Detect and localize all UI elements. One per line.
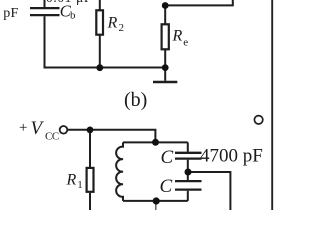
svg-text:1: 1: [77, 179, 83, 191]
svg-text:(b): (b): [124, 89, 147, 111]
svg-text:+: +: [19, 120, 27, 136]
svg-text:b: b: [70, 9, 76, 21]
svg-text:V: V: [31, 118, 45, 139]
svg-text:2: 2: [119, 22, 125, 34]
svg-text:R: R: [172, 27, 183, 44]
svg-text:C: C: [160, 176, 173, 197]
svg-text:4700 pF: 4700 pF: [200, 145, 263, 166]
svg-text:R: R: [66, 172, 77, 189]
svg-text:pF: pF: [3, 6, 18, 21]
svg-text:C: C: [161, 147, 174, 168]
svg-text:e: e: [183, 36, 188, 48]
svg-text:CC: CC: [45, 130, 59, 142]
svg-text:R: R: [107, 15, 118, 32]
